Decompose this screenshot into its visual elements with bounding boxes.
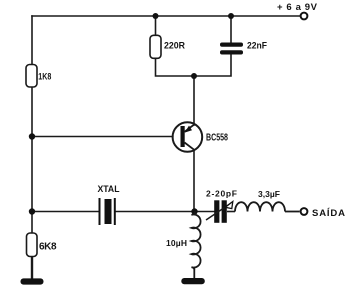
wire 22nF bottom lead [194, 55, 231, 77]
svg-text:22nF: 22nF [247, 40, 267, 51]
wire 220R bottom lead [156, 58, 195, 76]
ground right [181, 278, 205, 284]
svg-text:BC558: BC558 [206, 133, 228, 144]
output terminal [301, 208, 308, 215]
wire coil to ground [193, 268, 195, 279]
inductor L 3,3uF [235, 202, 285, 211]
svg-text:2-20pF: 2-20pF [206, 188, 237, 198]
wire xtal right to collector node [116, 211, 195, 213]
resistor R 6K8 [27, 233, 38, 257]
svg-text:1K8: 1K8 [38, 71, 51, 81]
wire xtal left [32, 211, 99, 213]
wire 6K8 bottom lead [31, 257, 33, 280]
wire node to trimmer [194, 211, 214, 213]
svg-text:6K8: 6K8 [39, 242, 57, 253]
wire emitter vertical [193, 76, 195, 125]
wire left rail upper [31, 16, 33, 65]
svg-text:10µH: 10µH [166, 238, 187, 248]
capacitor C 22nF plates [220, 43, 243, 55]
svg-text:XTAL: XTAL [98, 184, 120, 194]
wire 22nF top lead [230, 16, 232, 43]
wire collector vertical [193, 150, 195, 212]
crystal XTAL [100, 198, 115, 225]
svg-text:3,3µF: 3,3µF [258, 189, 280, 199]
wire left rail middle [31, 87, 33, 212]
resistor R 220R [150, 35, 161, 58]
node dot 220R top [153, 13, 159, 19]
svg-text:+ 6 a 9V: + 6 a 9V [277, 2, 318, 13]
node dot collector junction [191, 208, 197, 214]
svg-text:SAÍDA: SAÍDA [312, 208, 345, 219]
wire trimmer to coil [227, 211, 235, 213]
node dot base junction [29, 133, 35, 139]
node dot emitter junction [191, 73, 197, 79]
transistor Q BC558 [173, 122, 203, 152]
node dot 22nF top [228, 13, 234, 19]
trimmer capacitor 2-20pF [206, 200, 233, 223]
svg-text:220R: 220R [164, 40, 185, 51]
ground left [21, 278, 44, 284]
wire 220R top lead [155, 16, 157, 35]
wire 6K8 top lead [31, 212, 33, 234]
wire top rail [32, 15, 300, 17]
resistor R 1K8 [26, 65, 37, 88]
wire base [32, 136, 173, 138]
inductor 10uH [192, 212, 201, 270]
wire coil to output [285, 211, 300, 213]
supply terminal [301, 13, 308, 20]
node dot xtal junction left [29, 208, 35, 214]
